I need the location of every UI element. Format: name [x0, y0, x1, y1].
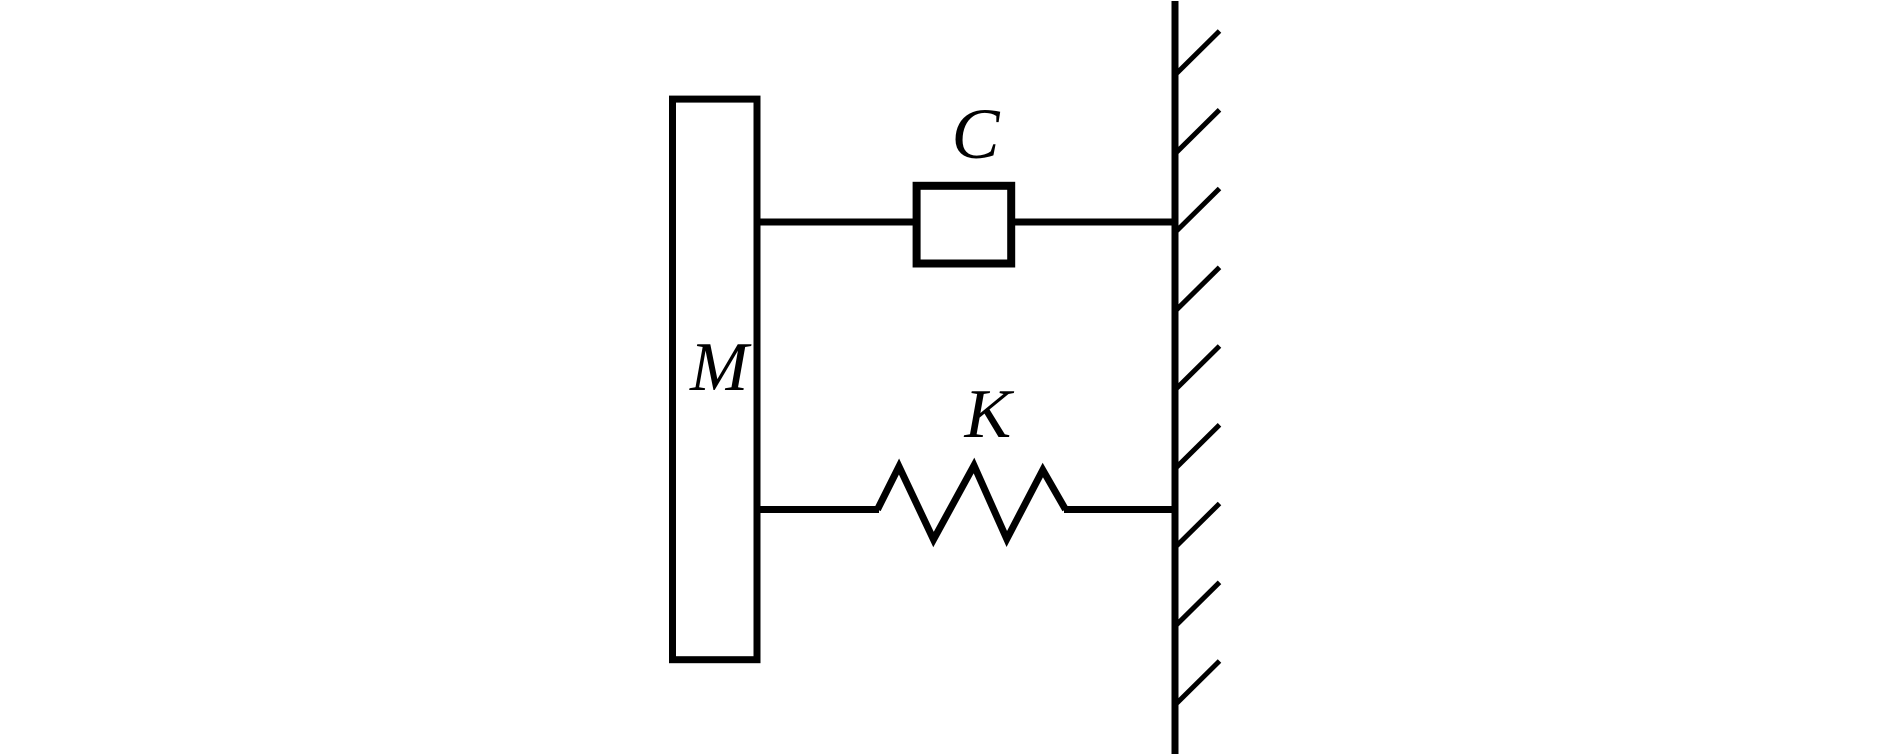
wall hatch mark 3 [1176, 189, 1220, 232]
wall hatch mark 2 [1176, 110, 1220, 153]
spring K (zigzag) [878, 466, 1066, 540]
wall hatch mark 4 [1176, 267, 1220, 310]
label M [689, 329, 752, 406]
svg-text:C: C [952, 94, 1001, 174]
svg-text:K: K [964, 376, 1015, 453]
svg-text:M: M [689, 329, 752, 406]
label K [964, 376, 1015, 453]
wall hatch mark 5 [1176, 346, 1220, 389]
wire top-left (mass to damper C) [757, 219, 920, 226]
wall hatch mark 8 [1176, 582, 1220, 625]
wire top-right (damper C to wall) [1008, 219, 1176, 226]
wire bottom-left (mass to spring K) [757, 506, 879, 513]
wall (fixed support line) [1172, 1, 1179, 754]
wall hatch mark 6 [1176, 425, 1220, 468]
wire bottom-right (spring K to wall) [1064, 506, 1176, 513]
wall hatch mark 1 [1176, 31, 1220, 74]
label C [952, 94, 1001, 174]
damper C (dashpot box) [917, 186, 1012, 264]
wall hatch mark 7 [1176, 504, 1220, 547]
mass M (rigid block) [673, 99, 758, 660]
wall hatch mark 9 [1176, 661, 1220, 704]
